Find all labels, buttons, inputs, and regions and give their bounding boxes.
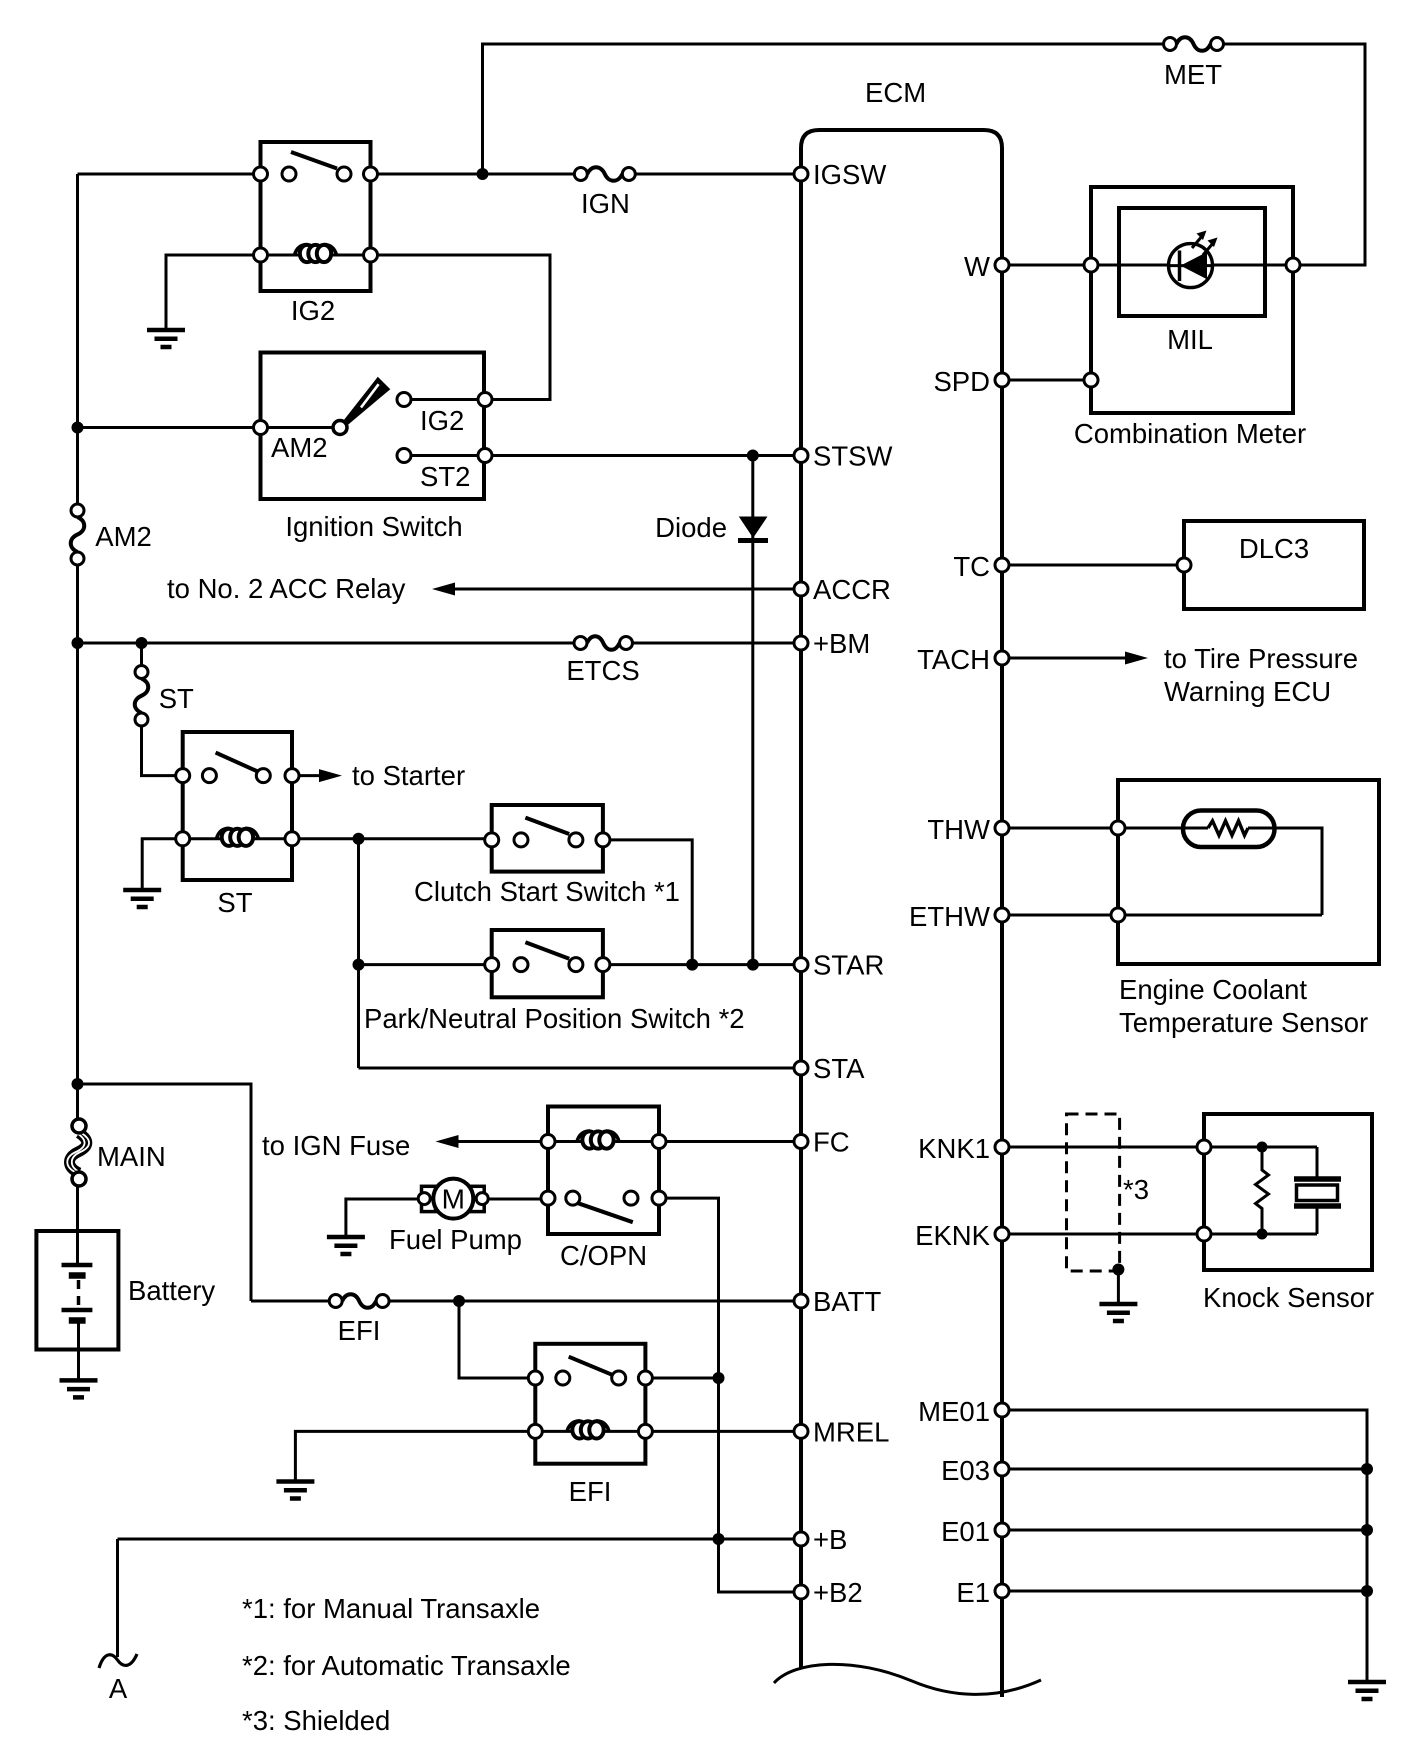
svg-text:FC: FC [813, 1127, 850, 1158]
svg-text:TACH: TACH [917, 644, 990, 675]
svg-text:IGN: IGN [581, 188, 630, 219]
svg-text:EKNK: EKNK [915, 1220, 991, 1251]
svg-text:+BM: +BM [813, 628, 870, 659]
svg-text:to Starter: to Starter [352, 760, 465, 791]
svg-text:STA: STA [813, 1053, 865, 1084]
svg-text:Ignition Switch: Ignition Switch [285, 511, 462, 542]
svg-text:Warning ECU: Warning ECU [1164, 676, 1331, 707]
svg-text:Combination Meter: Combination Meter [1074, 418, 1306, 449]
svg-text:Temperature Sensor: Temperature Sensor [1119, 1007, 1368, 1038]
svg-text:*1: for Manual Transaxle: *1: for Manual Transaxle [242, 1593, 540, 1624]
svg-text:ETHW: ETHW [909, 901, 990, 932]
svg-text:ST: ST [159, 683, 194, 714]
svg-text:AM2: AM2 [95, 521, 152, 552]
svg-text:MAIN: MAIN [97, 1141, 166, 1172]
svg-text:IG2: IG2 [291, 295, 335, 326]
svg-text:AM2: AM2 [271, 432, 328, 463]
svg-text:ETCS: ETCS [566, 655, 639, 686]
svg-text:ACCR: ACCR [813, 574, 891, 605]
svg-text:KNK1: KNK1 [918, 1133, 990, 1164]
svg-text:E03: E03 [941, 1455, 990, 1486]
svg-text:ST2: ST2 [420, 461, 470, 492]
svg-text:Battery: Battery [128, 1275, 215, 1306]
svg-text:Clutch Start Switch *1: Clutch Start Switch *1 [414, 876, 680, 907]
svg-text:*3: *3 [1123, 1174, 1149, 1205]
svg-text:STSW: STSW [813, 441, 892, 472]
svg-text:ECM: ECM [865, 77, 926, 108]
svg-text:TC: TC [953, 551, 990, 582]
svg-text:EFI: EFI [569, 1476, 612, 1507]
svg-text:to No. 2 ACC Relay: to No. 2 ACC Relay [167, 573, 406, 604]
svg-text:IG2: IG2 [420, 405, 464, 436]
svg-text:DLC3: DLC3 [1239, 533, 1309, 564]
svg-text:ST: ST [217, 887, 252, 918]
svg-text:to IGN Fuse: to IGN Fuse [262, 1130, 410, 1161]
svg-text:Engine Coolant: Engine Coolant [1119, 974, 1307, 1005]
svg-text:+B2: +B2 [813, 1577, 863, 1608]
svg-text:MET: MET [1164, 59, 1222, 90]
svg-text:*3: Shielded: *3: Shielded [242, 1705, 390, 1736]
svg-text:+B: +B [813, 1524, 847, 1555]
svg-text:EFI: EFI [338, 1315, 381, 1346]
svg-text:SPD: SPD [933, 366, 990, 397]
svg-text:ME01: ME01 [918, 1396, 990, 1427]
svg-text:E1: E1 [956, 1577, 990, 1608]
svg-text:MIL: MIL [1167, 324, 1213, 355]
svg-text:Knock Sensor: Knock Sensor [1203, 1282, 1374, 1313]
svg-text:MREL: MREL [813, 1416, 889, 1447]
svg-text:*2: for Automatic Transaxle: *2: for Automatic Transaxle [242, 1650, 571, 1681]
svg-text:Diode: Diode [655, 512, 727, 543]
svg-text:E01: E01 [941, 1516, 990, 1547]
svg-text:A: A [109, 1673, 128, 1704]
svg-text:to Tire Pressure: to Tire Pressure [1164, 643, 1358, 674]
svg-text:Fuel Pump: Fuel Pump [389, 1224, 522, 1255]
svg-text:W: W [964, 251, 990, 282]
svg-text:THW: THW [927, 814, 990, 845]
svg-text:BATT: BATT [813, 1286, 881, 1317]
svg-text:IGSW: IGSW [813, 159, 886, 190]
svg-text:STAR: STAR [813, 950, 884, 981]
svg-text:M: M [442, 1184, 465, 1215]
svg-text:Park/Neutral Position Switch *: Park/Neutral Position Switch *2 [364, 1003, 745, 1034]
svg-text:C/OPN: C/OPN [560, 1240, 647, 1271]
